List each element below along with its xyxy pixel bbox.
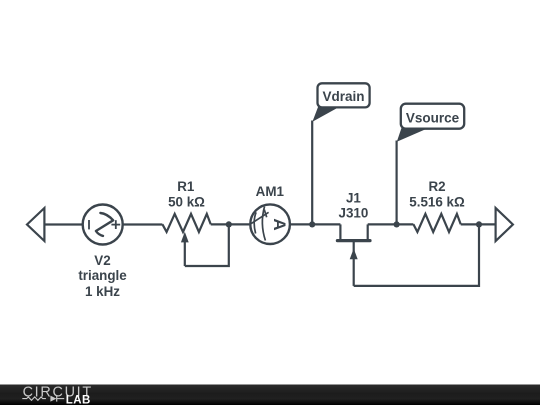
svg-text:1 kHz: 1 kHz — [85, 284, 120, 299]
port IN (input terminal) — [27, 208, 44, 241]
transistor J1 (N-JFET) — [337, 224, 370, 286]
wire: gate feedback loop — [354, 226, 479, 286]
junction: Vdrain node — [309, 221, 315, 227]
junction: Vsource node — [394, 221, 400, 227]
svg-text:triangle: triangle — [78, 268, 126, 283]
svg-text:R1: R1 — [177, 179, 195, 194]
wire: IN to V2 — [44, 223, 82, 225]
svg-text:V2: V2 — [94, 253, 110, 268]
svg-text:AM1: AM1 — [256, 184, 285, 199]
svg-text:Vdrain: Vdrain — [322, 89, 364, 104]
wire: R1 to AM1 — [211, 223, 250, 225]
junction: output node — [476, 221, 482, 227]
voltage source V2 — [83, 205, 123, 245]
svg-text:A: A — [270, 218, 289, 230]
flag Vsource — [397, 104, 464, 142]
footer bar — [0, 385, 540, 405]
port OUT (output terminal) — [496, 208, 513, 241]
CircuitLab logo — [22, 384, 93, 405]
svg-text:J1: J1 — [346, 190, 361, 205]
svg-text:J310: J310 — [339, 206, 369, 221]
wire: R2 to OUT — [461, 223, 496, 225]
resistor R1 (potentiometer body) — [162, 214, 210, 232]
ammeter AM1 — [250, 204, 290, 244]
wire: Vdrain stem — [311, 121, 313, 225]
svg-text:LAB: LAB — [66, 395, 91, 405]
wire: AM1 to J1 drain — [291, 223, 341, 225]
wire: Vsource stem — [396, 141, 398, 225]
junction: R1/wiper node — [226, 221, 232, 227]
svg-text:R2: R2 — [428, 179, 445, 194]
svg-text:5.516 kΩ: 5.516 kΩ — [409, 194, 465, 209]
R1 wiper arrow — [181, 232, 189, 266]
wire: R1 wiper loop — [185, 226, 229, 267]
svg-text:50 kΩ: 50 kΩ — [168, 194, 205, 209]
wire: V2 to R1 — [123, 223, 162, 225]
svg-text:Vsource: Vsource — [406, 110, 460, 125]
wire: J1 source to R2 — [368, 223, 414, 225]
resistor R2 — [413, 214, 460, 232]
flag Vdrain — [312, 83, 369, 122]
